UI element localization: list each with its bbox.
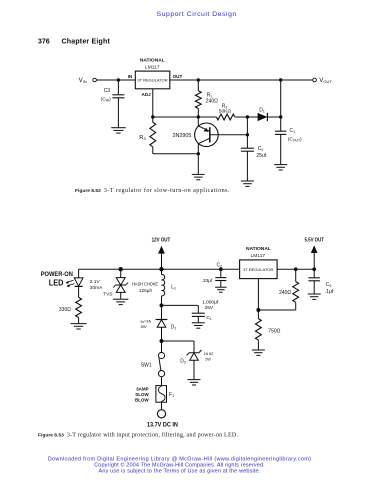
- svg-text:25V: 25V: [205, 305, 214, 311]
- svg-text:125μh: 125μh: [139, 288, 153, 293]
- svg-text:1,000μf: 1,000μf: [202, 299, 219, 305]
- TVS transient suppressor: [103, 269, 128, 299]
- node 240 ohm top: [294, 267, 298, 271]
- svg-text:3AMP: 3AMP: [136, 387, 149, 392]
- page number and chapter heading: [38, 39, 110, 46]
- ground under 750 ohm: [252, 350, 265, 355]
- inductor L1 hash choke: [132, 269, 176, 305]
- ground under C1: [192, 323, 205, 328]
- svg-text:Chapter Eight: Chapter Eight: [62, 39, 111, 46]
- arrow 5.5V OUT: [311, 245, 318, 269]
- svg-text:SLOW: SLOW: [135, 392, 149, 397]
- pin label ADJ: [142, 92, 152, 97]
- transistor Q1 2N2905 (PNP): [173, 123, 219, 147]
- node D2 anode junction: [160, 339, 164, 343]
- wire base node vertical: [246, 117, 248, 148]
- svg-text:240Ω: 240Ω: [206, 99, 218, 105]
- ground under C3: [308, 294, 321, 299]
- wire U2 OUT rail: [277, 268, 314, 270]
- svg-text:2N2905: 2N2905: [173, 133, 192, 139]
- resistor R3: [139, 117, 155, 154]
- svg-text:240Ω: 240Ω: [279, 290, 291, 296]
- wire ADJ to 240 ohm bottom: [258, 309, 295, 311]
- svg-text:3T REGULATOR: 3T REGULATOR: [137, 78, 167, 83]
- wire fuse to input terminal: [161, 402, 163, 409]
- svg-text:376: 376: [38, 39, 50, 46]
- diode D2 series protection: [141, 305, 177, 341]
- terminal 13.7V DC IN: [147, 410, 178, 429]
- caption figure 8.52: [75, 187, 230, 194]
- wire VIN to regulator IN: [96, 79, 135, 81]
- ground under C2: [241, 181, 254, 186]
- svg-text:Any use is subject to the Term: Any use is subject to the Terms of Use a…: [99, 469, 261, 475]
- svg-text:30mA: 30mA: [90, 285, 103, 291]
- wire collector: [197, 144, 199, 154]
- pin label OUT: [173, 74, 183, 79]
- node ADJ / R3 top: [151, 115, 154, 118]
- wire ADJ node to emitter node: [153, 116, 199, 118]
- resistor 750 ohm: [256, 310, 281, 350]
- node emitter junction: [197, 115, 200, 118]
- svg-text:Figure 8.533-T regulator with: Figure 8.533-T regulator with input prot…: [38, 431, 238, 438]
- label POWER-ON LED: [41, 271, 74, 287]
- resistor 240 ohm: [279, 269, 298, 310]
- LED D4 power-on: [74, 278, 83, 287]
- wire rail corner to LED: [78, 269, 80, 277]
- wire regulator OUT to VOUT rail: [170, 79, 313, 81]
- wire 12V top rail: [79, 268, 240, 270]
- capacitor C2 .33uf: [202, 263, 227, 287]
- node output rail / D1 branch: [279, 78, 282, 81]
- diode D1: [247, 108, 280, 121]
- switch SW1: [141, 341, 165, 386]
- svg-text:12V OUT: 12V OUT: [152, 238, 171, 244]
- node ADJ junction: [256, 308, 260, 312]
- svg-text:5W: 5W: [205, 358, 211, 362]
- node bottom rail ground: [197, 152, 200, 155]
- svg-text:2.1V: 2.1V: [90, 279, 101, 285]
- regulator U1 LM117 (3T REGULATOR) with labels: [135, 58, 170, 89]
- wire emitter: [197, 117, 199, 126]
- ground under bottom rail: [192, 174, 205, 179]
- caption figure 8.53: [38, 431, 238, 438]
- ground under C3: [111, 128, 126, 133]
- svg-text:LM117: LM117: [145, 64, 160, 70]
- label 5.5V OUT: [305, 237, 325, 243]
- label 12V OUT: [152, 238, 171, 244]
- wire base: [210, 134, 248, 136]
- svg-text:HASH CHOKE: HASH CHOKE: [132, 281, 158, 286]
- fuse F1: [135, 386, 174, 403]
- svg-text:5.5V OUT: 5.5V OUT: [305, 237, 325, 243]
- svg-text:ADJ: ADJ: [142, 92, 152, 97]
- terminal VOUT: [313, 77, 333, 84]
- svg-text:BLOW: BLOW: [135, 398, 149, 403]
- resistor R1 240 ohm: [195, 80, 218, 117]
- node output rail / R1 top: [197, 78, 200, 81]
- node C3 tap / 5.5V out: [312, 267, 316, 271]
- node input junction: [117, 78, 120, 81]
- svg-text:SW1: SW1: [141, 362, 152, 368]
- wire L1 bottom to C1: [162, 304, 199, 306]
- wire ADJ down: [152, 89, 154, 117]
- svg-text:13.7V DC IN: 13.7V DC IN: [147, 422, 178, 428]
- capacitor C1 1000uf: [192, 299, 219, 322]
- diode D3 zener: [180, 350, 214, 379]
- svg-text:R3: R3: [139, 135, 146, 141]
- svg-text:Figure 8.523-T regulator for s: Figure 8.523-T regulator for slow-turn-o…: [75, 187, 230, 194]
- arrow 12V OUT: [158, 246, 165, 269]
- footer copyright block: [48, 457, 312, 475]
- svg-text:NATIONAL: NATIONAL: [140, 58, 165, 64]
- resistor R2 50K: [198, 104, 247, 120]
- svg-text:25uf: 25uf: [256, 153, 266, 159]
- page header running title: [157, 11, 237, 18]
- wire to ground: [197, 154, 199, 174]
- terminal VIN: [79, 77, 97, 84]
- LED emission arrows: [65, 280, 74, 287]
- label 2.1V 30mA: [90, 279, 103, 291]
- svg-text:C3: C3: [104, 88, 111, 94]
- pin label IN: [128, 74, 133, 79]
- capacitor C3 .1uf: [308, 269, 333, 295]
- node 12V out / L1 top: [159, 267, 163, 271]
- wire LED to R330: [78, 286, 80, 297]
- ground under D3: [188, 380, 201, 385]
- svg-text:.33μf: .33μf: [202, 278, 213, 284]
- ground under C2 .33uf: [215, 287, 227, 292]
- svg-text:.1μf: .1μf: [325, 289, 334, 295]
- capacitor C1 (COUT): [275, 117, 302, 164]
- ground under TVS: [113, 299, 128, 304]
- svg-text:TVS: TVS: [103, 292, 112, 298]
- svg-text:LM117: LM117: [251, 253, 266, 259]
- node L1 bottom: [160, 303, 164, 307]
- svg-text:IN: IN: [128, 74, 133, 79]
- wire bottom rail: [153, 153, 199, 155]
- node D1 anode / R2 right: [246, 115, 249, 118]
- svg-text:330Ω: 330Ω: [59, 307, 71, 313]
- svg-text:POWER-ON: POWER-ON: [41, 271, 74, 278]
- capacitor C2 25uf: [241, 146, 267, 180]
- node base junction: [246, 133, 249, 136]
- svg-text:OUT: OUT: [173, 74, 183, 79]
- ground under 330 ohm: [71, 324, 87, 329]
- svg-text:3T REGULATOR: 3T REGULATOR: [243, 267, 273, 272]
- resistor 330 ohm: [59, 297, 82, 323]
- node C2 tap: [219, 267, 223, 271]
- ground under C1: [274, 165, 287, 170]
- wire U2 ADJ down: [257, 279, 259, 310]
- wire VOUT rail to D1 cathode: [280, 80, 282, 117]
- svg-text:Support Circuit Design: Support Circuit Design: [157, 11, 237, 18]
- node TVS tap: [119, 267, 123, 271]
- svg-text:750Ω: 750Ω: [268, 329, 280, 335]
- svg-text:50KΩ: 50KΩ: [219, 109, 232, 115]
- svg-text:LED: LED: [49, 278, 64, 287]
- svg-text:5W: 5W: [141, 324, 147, 329]
- svg-text:Copyright © 2004 The McGraw-Hi: Copyright © 2004 The McGraw-Hill Compani…: [94, 462, 265, 469]
- regulator U2 LM117: [240, 246, 278, 279]
- wire junction to D3: [162, 341, 195, 353]
- capacitor C3 (CIN): [101, 80, 125, 128]
- svg-text:NATIONAL: NATIONAL: [246, 246, 271, 252]
- node D1 cathode junction: [279, 115, 282, 118]
- svg-text:1N 8Z: 1N 8Z: [204, 352, 215, 356]
